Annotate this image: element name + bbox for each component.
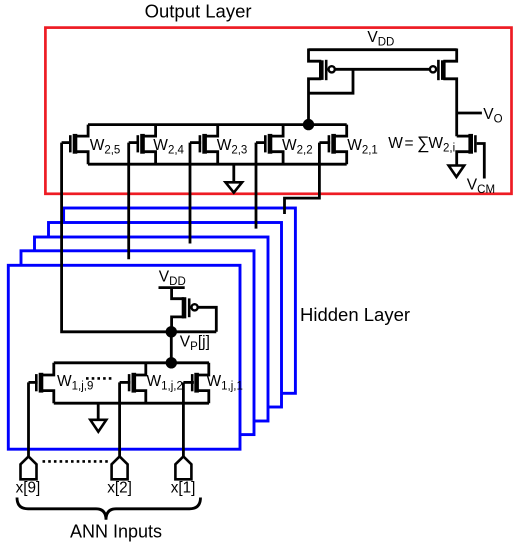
mirror gate wire	[335, 68, 430, 71]
transistor W2,1 gate bar	[328, 135, 331, 152]
transistor W2,3 source	[205, 152, 218, 165]
wire W2,4 gate down to frame 4	[127, 143, 130, 260]
svg-text:W2,3: W2,3	[217, 137, 248, 157]
pmos M2 channel	[441, 60, 446, 80]
input pin x[9]	[21, 456, 37, 479]
hidden layer frame 2	[49, 223, 282, 408]
svg-text:x[2]: x[2]	[107, 480, 132, 497]
pmos M1 gate bubble	[329, 66, 335, 72]
hidden layer frame 3	[35, 237, 269, 421]
output nmos channel	[468, 134, 473, 154]
output nmos drain lead	[457, 135, 471, 138]
input row drain rail	[54, 361, 209, 364]
pmos M2 source lead	[443, 49, 456, 62]
transistor W2,2 gate bar	[264, 135, 267, 152]
transistor W2,3 drain	[205, 125, 218, 137]
transistor W2,4 drain	[143, 125, 156, 137]
pmos M1 source lead	[309, 49, 322, 62]
transistor W1,j,1 gate bar	[191, 374, 194, 391]
svg-text:VCM: VCM	[467, 176, 495, 196]
wire W2,5 gate to VP[j]	[62, 143, 217, 332]
transistor W1,j,1 drain	[197, 363, 209, 375]
hidden pmos drain lead	[172, 317, 184, 332]
output row ground arrow	[226, 182, 243, 192]
hidden pmos gate bar	[188, 298, 191, 317]
ANN inputs brace	[17, 498, 201, 520]
transistor W1,j,2 drain	[134, 363, 146, 375]
svg-text:W2,2: W2,2	[282, 137, 313, 157]
transistor W2,1 drain	[334, 125, 347, 137]
pmos M2 gate bubble	[430, 66, 436, 72]
hidden row ground arrow	[90, 420, 106, 432]
hidden pmos gate bubble	[192, 304, 198, 310]
wire W2,1 gate down to frame 1	[285, 143, 320, 214]
transistor W2,2 drain	[270, 125, 283, 137]
transistor W2,4 channel	[140, 134, 145, 154]
VDD rail (output mirror)	[309, 48, 457, 51]
output nmos source lead	[457, 152, 471, 166]
dotted ellipsis pins	[43, 460, 109, 463]
svg-text:Output Layer: Output Layer	[145, 1, 252, 22]
hidden layer frame 1 (back)	[64, 208, 296, 393]
hidden pmos channel	[182, 297, 187, 318]
output layer red box	[45, 28, 511, 194]
hidden row ground stem	[97, 403, 100, 420]
transistor W1,j,9 channel	[39, 373, 44, 393]
node dot VP[j]	[166, 326, 177, 337]
transistor W2,2 source	[270, 152, 283, 165]
svg-text:VDD: VDD	[367, 29, 394, 49]
svg-text:W2,1: W2,1	[347, 137, 378, 157]
output row source rail	[88, 163, 347, 166]
pmos M1 gate bar	[325, 60, 328, 80]
transistor W2,1 source	[334, 152, 347, 165]
svg-text:W2,4: W2,4	[153, 137, 184, 157]
wire W2,2 gate down to frame 2	[255, 143, 258, 229]
transistor W2,5 drain	[75, 125, 88, 137]
transistor W2,4 gate lead	[129, 141, 139, 144]
output row ground stem	[232, 164, 235, 182]
input pin x[2]	[112, 456, 128, 479]
transistor W2,3 gate lead	[190, 141, 201, 144]
hidden pmos source lead	[172, 288, 184, 299]
transistor W1,j,2 source	[134, 391, 146, 404]
transistor W1,j,2 gate lead	[120, 381, 131, 384]
diode connection wire	[309, 69, 354, 93]
transistor W1,j,9 drain	[41, 363, 54, 375]
transistor W2,5 channel	[73, 134, 78, 154]
pmos M1 channel	[319, 60, 324, 80]
dotted ellipsis transistors	[86, 377, 113, 380]
transistor W1,j,1 gate lead	[183, 381, 194, 384]
pmos M2 drain lead	[443, 79, 456, 136]
svg-text:x[1]: x[1]	[171, 480, 196, 497]
transistor W2,2 channel	[268, 134, 273, 154]
svg-text:W2,5: W2,5	[90, 137, 121, 157]
transistor W2,4 source	[143, 152, 156, 165]
pmos M2 gate bar	[437, 60, 440, 80]
transistor W2,5 gate lead	[62, 141, 72, 144]
output row drain rail	[88, 123, 347, 126]
wire x[9] to gate	[27, 382, 30, 456]
transistor W2,3 gate bar	[199, 135, 202, 152]
output nmos gate bar	[474, 135, 477, 152]
node dot input row	[166, 357, 177, 368]
output nmos gate lead to VCM	[477, 144, 485, 179]
transistor W1,j,2 gate bar	[128, 374, 131, 391]
transistor W1,j,9 gate bar	[35, 374, 38, 391]
transistor W2,2 gate lead	[256, 141, 267, 144]
svg-text:Hidden Layer: Hidden Layer	[300, 304, 410, 325]
svg-text:W=∑W2,i: W=∑W2,i	[388, 133, 455, 155]
transistor W1,j,2 channel	[132, 373, 137, 393]
transistor W2,3 channel	[202, 134, 207, 154]
transistor W2,1 channel	[331, 134, 336, 154]
hidden layer frame 5 (front)	[8, 265, 240, 449]
hidden layer frame 4	[21, 251, 254, 435]
hidden pmos gate wire	[198, 307, 217, 332]
wire x[2] to gate	[118, 382, 121, 456]
transistor W1,j,1 channel	[194, 373, 199, 393]
transistor W2,1 gate lead	[319, 141, 330, 144]
wire W2,3 gate down to frame 3	[189, 143, 192, 244]
transistor W2,5 gate bar	[69, 135, 72, 152]
transistor W1,j,9 gate lead	[29, 381, 38, 384]
svg-text:ANN Inputs: ANN Inputs	[70, 521, 162, 541]
VO tap wire	[457, 112, 482, 115]
transistor W1,j,1 source	[197, 391, 209, 404]
transistor W1,j,9 source	[41, 391, 54, 404]
svg-text:VO: VO	[483, 106, 502, 126]
output nmos ground arrow	[449, 166, 465, 177]
pmos M1 drain lead	[309, 79, 322, 125]
wire x[1] to gate	[182, 382, 185, 456]
svg-text:x[9]: x[9]	[16, 480, 41, 497]
input row source rail	[54, 402, 209, 405]
transistor W2,5 source	[75, 152, 88, 165]
wire VP to input row	[170, 332, 173, 363]
input pin x[1]	[175, 456, 191, 479]
hidden VDD rail	[159, 286, 185, 289]
node dot on drain rail	[303, 119, 314, 130]
transistor W2,4 gate bar	[137, 135, 140, 152]
